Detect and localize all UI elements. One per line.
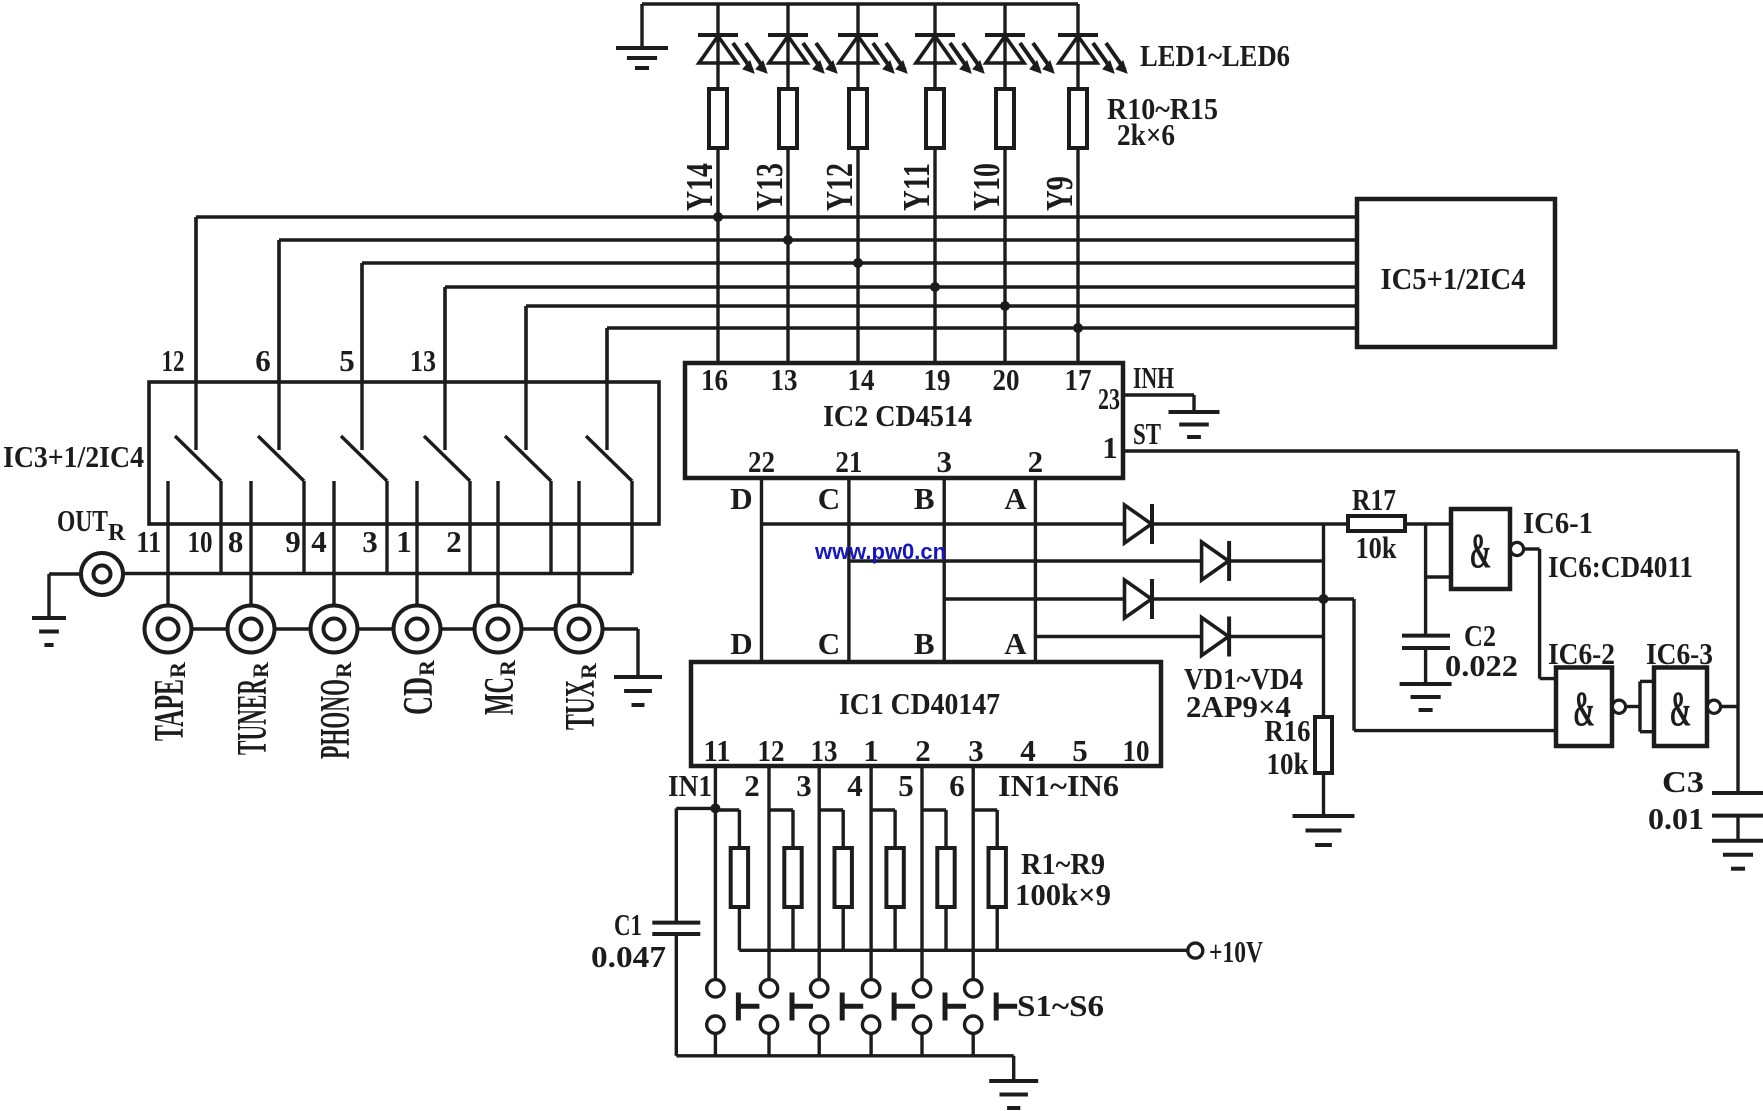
wire switch out K1 [219, 481, 222, 574]
svg-text:3: 3 [796, 768, 812, 803]
ground TUX [614, 677, 662, 705]
svg-text:R: R [495, 659, 520, 676]
svg-text:IC6-3: IC6-3 [1646, 636, 1713, 671]
label 5 [898, 768, 914, 803]
wire control S4 [443, 287, 446, 450]
wire C2 branch [1424, 524, 1427, 636]
wire control S1 [194, 217, 197, 450]
wire IN3 column [818, 766, 821, 980]
svg-text:&: & [1670, 680, 1692, 736]
svg-text:S1~S6: S1~S6 [1017, 988, 1104, 1023]
pin 2 IC2 [1028, 444, 1044, 479]
node A lower [1004, 626, 1027, 661]
label MC_R [477, 659, 523, 715]
svg-text:TUNER: TUNER [230, 679, 276, 755]
wire TUX to ground [603, 629, 639, 677]
svg-text:14: 14 [848, 362, 875, 397]
LED LED2 [768, 4, 837, 89]
wire switch out K6 [630, 481, 633, 574]
switch S3 [811, 980, 864, 1056]
wire top rail [642, 2, 1078, 5]
wire switch out K5 [549, 481, 552, 574]
wire link PHONO-CD [358, 627, 394, 630]
svg-text:4: 4 [1020, 733, 1036, 768]
svg-text:9: 9 [285, 524, 301, 559]
wire switch in K6 [577, 481, 580, 606]
pin 10 IC1 [1123, 733, 1150, 768]
wire INH pin23 [1124, 395, 1194, 412]
wire control S5 [524, 306, 527, 450]
wire control S3 [360, 263, 363, 450]
label TUNER_R [230, 661, 276, 755]
svg-text:1: 1 [1102, 430, 1118, 465]
label IN1~IN6 [998, 768, 1119, 803]
svg-text:IC6:CD4011: IC6:CD4011 [1548, 549, 1693, 584]
pin 20 IC2 [993, 362, 1020, 397]
wire switch out K2 [302, 481, 305, 574]
svg-text:IC6-1: IC6-1 [1523, 505, 1593, 540]
node Y12 [819, 163, 861, 211]
wire R16 to ground [1322, 773, 1325, 816]
wire bus Y14 to IC5 [196, 215, 1357, 218]
pin 8 IC3 [228, 524, 244, 559]
pin 23 IC2 [1098, 381, 1120, 416]
svg-text:C: C [818, 481, 840, 516]
connector TUX_R [556, 606, 603, 653]
node Y9 [1039, 176, 1081, 211]
svg-text:0.047: 0.047 [591, 939, 666, 974]
wire D column [760, 478, 763, 662]
svg-text:&: & [1573, 680, 1595, 736]
svg-text:INH: INH [1133, 360, 1174, 395]
svg-text:23: 23 [1098, 381, 1120, 416]
switch S2 [760, 980, 813, 1056]
wire Y9 column [1076, 148, 1079, 363]
switch blade K2 [258, 436, 304, 481]
wire ST pin1 [1124, 449, 1738, 452]
svg-text:13: 13 [771, 362, 798, 397]
LED LED1 [698, 4, 767, 89]
label TUX_R [558, 662, 604, 730]
resistor R14 [996, 89, 1014, 148]
wire bottom bus [676, 1054, 1013, 1057]
svg-text:MC: MC [477, 677, 523, 715]
junction Y12 [853, 258, 863, 268]
wire control S6 [605, 328, 608, 450]
pin 13 IC1 [811, 733, 838, 768]
pin 3 IC1 [968, 733, 984, 768]
wire row D [762, 522, 1349, 525]
switch blade K4 [424, 436, 470, 481]
wire IN1 column [714, 766, 717, 980]
wire row B [944, 597, 1323, 600]
wire switch in K1 [166, 481, 169, 606]
wire row C [849, 559, 1324, 562]
IC U1 CD40147 box [691, 662, 1161, 766]
wire bus Y11 to IC5 [445, 285, 1357, 288]
svg-text:B: B [914, 626, 935, 661]
svg-text:IN1: IN1 [668, 768, 712, 803]
svg-text:12: 12 [758, 733, 785, 768]
pin 12 IC1 [758, 733, 785, 768]
svg-text:0.01: 0.01 [1648, 801, 1704, 836]
svg-text:Y12: Y12 [819, 163, 861, 211]
pin 11 IC3 [136, 524, 161, 559]
LED LED6 [1058, 4, 1127, 89]
ground OUT_R [32, 618, 66, 645]
op-amp gate IC6-1 [1451, 509, 1524, 589]
svg-text:CD: CD [396, 677, 442, 715]
wire OUT bus [123, 572, 632, 575]
pin 5 IC1 [1072, 733, 1088, 768]
pin 19 IC2 [924, 362, 951, 397]
pin 10 IC3 [188, 524, 213, 559]
resistor R17 [1348, 516, 1405, 531]
LED LED4 [915, 4, 984, 89]
svg-text:Y14: Y14 [679, 163, 721, 211]
svg-text:11: 11 [136, 524, 161, 559]
svg-text:IN1~IN6: IN1~IN6 [998, 768, 1119, 803]
junction Y9 [1073, 323, 1083, 333]
wire link MC-TUX [522, 627, 556, 630]
svg-text:3: 3 [362, 524, 378, 559]
svg-text:Y13: Y13 [749, 163, 791, 211]
op-amp gate IC6-2 [1556, 668, 1626, 747]
switch S1 [707, 980, 760, 1056]
wire control S2 [277, 240, 280, 450]
wire Y10 column [1003, 148, 1006, 363]
wire R17 to gate [1405, 522, 1451, 525]
connector MC_R [475, 606, 522, 653]
svg-text:IC6-2: IC6-2 [1548, 636, 1615, 671]
wire bus stub Y13 down [277, 240, 280, 382]
wire B column [943, 478, 946, 662]
svg-text:R1~R9: R1~R9 [1021, 846, 1105, 881]
switch blade K6 [586, 436, 632, 481]
label TAPE_R [147, 661, 193, 741]
wire +10V bus [739, 949, 1187, 952]
svg-text:&: & [1470, 522, 1492, 578]
connector TUNER_R [228, 606, 275, 653]
label R1~R9 [1015, 846, 1111, 912]
svg-text:D: D [730, 481, 752, 516]
wire bus stub Y14 down [194, 217, 197, 382]
pin 17 IC2 [1065, 362, 1092, 397]
diode VD4 [1202, 617, 1230, 657]
svg-text:ST: ST [1133, 416, 1161, 451]
resistor R6 [973, 810, 1006, 950]
ground INH [1169, 412, 1220, 437]
svg-text:C: C [818, 626, 840, 661]
svg-text:11: 11 [704, 733, 731, 768]
svg-text:R16: R16 [1265, 713, 1311, 748]
junction IN1 [710, 803, 720, 813]
label C2 [1445, 618, 1518, 683]
diode VD2 [1202, 541, 1230, 581]
ground C3 [1712, 841, 1763, 869]
switch blade K3 [341, 436, 387, 481]
svg-text:20: 20 [993, 362, 1020, 397]
label R17 [1352, 482, 1397, 565]
svg-text:16: 16 [701, 362, 728, 397]
pin 13 IC3 [410, 343, 436, 378]
label 4 [847, 768, 863, 803]
junction Y13 [783, 235, 793, 245]
resistor R4 [871, 810, 904, 950]
resistor R10 [709, 89, 727, 148]
svg-text:TAPE: TAPE [147, 679, 193, 741]
switch blade K1 [175, 436, 221, 481]
svg-text:12: 12 [162, 343, 185, 378]
wire switch in K2 [249, 481, 252, 606]
svg-text:IC1 CD40147: IC1 CD40147 [839, 686, 1000, 721]
svg-text:B: B [914, 481, 935, 516]
svg-text:4: 4 [311, 524, 327, 559]
wire link CD-MC [441, 627, 475, 630]
wire Y13 column [786, 148, 789, 363]
connector CD_R [394, 606, 441, 653]
IC U3 analog switch box [149, 382, 659, 524]
svg-text:D: D [730, 626, 752, 661]
svg-text:A: A [1004, 626, 1027, 661]
svg-text:0.022: 0.022 [1445, 648, 1518, 683]
svg-text:3: 3 [968, 733, 984, 768]
node Y13 [749, 163, 791, 211]
svg-text:IC2 CD4514: IC2 CD4514 [823, 398, 972, 433]
pin 14 IC2 [848, 362, 875, 397]
node D lower [730, 626, 752, 661]
svg-text:5: 5 [1072, 733, 1088, 768]
wire gate input2 [1426, 575, 1451, 578]
pin 6 IC3 [255, 343, 271, 378]
node B upper [914, 481, 935, 516]
connector PHONO_R [311, 606, 358, 653]
switch S4 [862, 980, 915, 1056]
resistor R1 [715, 810, 748, 950]
svg-text:1: 1 [863, 733, 879, 768]
node Y10 [966, 163, 1008, 211]
pin 13 IC2 [771, 362, 798, 397]
resistor R5 [922, 810, 955, 950]
resistor R2 [769, 810, 802, 950]
pin 9 IC3 [285, 524, 301, 559]
node Y11 [896, 163, 938, 211]
svg-text:R: R [165, 661, 190, 678]
node A upper [1004, 481, 1027, 516]
pin 5 IC3 [339, 343, 355, 378]
svg-text:22: 22 [748, 444, 775, 479]
wire link TAPE-TUNER [192, 627, 228, 630]
wire OUT_R left [49, 574, 81, 618]
svg-text:R17: R17 [1352, 482, 1396, 517]
pin 1 IC1 [863, 733, 879, 768]
switch S6 [965, 980, 1018, 1056]
connector OUT_R [81, 553, 123, 595]
pin 2 IC3 [446, 524, 462, 559]
LED LED5 [985, 4, 1054, 89]
diode VD3 [1125, 579, 1153, 619]
svg-text:IC3+1/2IC4: IC3+1/2IC4 [3, 439, 144, 474]
label R16 [1265, 713, 1311, 781]
diode VD1 [1125, 504, 1153, 544]
svg-text:6: 6 [255, 343, 271, 378]
wire Y14 column [716, 148, 719, 363]
label 3 [796, 768, 812, 803]
svg-text:21: 21 [835, 444, 862, 479]
node C lower [818, 626, 840, 661]
label S1~S6 [1017, 988, 1104, 1023]
pin 3 IC3 [362, 524, 378, 559]
label IC2 CD4514 [823, 398, 972, 433]
resistor R3 [819, 810, 852, 950]
wire switch in K4 [415, 481, 418, 606]
ground R16 [1293, 816, 1355, 845]
ground C2 [1400, 684, 1452, 710]
label C3 [1648, 764, 1704, 836]
svg-text:19: 19 [924, 362, 951, 397]
label IC6-3 [1646, 636, 1713, 671]
wire IC6-2 out [1626, 705, 1640, 708]
label R10~R15 value [1107, 91, 1218, 152]
svg-text:10k: 10k [1267, 746, 1310, 781]
svg-text:8: 8 [228, 524, 244, 559]
svg-text:R: R [576, 662, 601, 679]
svg-text:2: 2 [1028, 444, 1044, 479]
pin 1 IC2 [1102, 430, 1118, 465]
wire right edge down [1736, 451, 1739, 793]
wire C column [847, 478, 850, 662]
wire C1 branch [676, 808, 715, 922]
svg-text:6: 6 [949, 768, 965, 803]
ground bottom [989, 1081, 1038, 1108]
svg-text:13: 13 [410, 343, 436, 378]
svg-text:10: 10 [188, 524, 213, 559]
op-amp gate IC6-3 [1654, 668, 1721, 747]
svg-text:100k×9: 100k×9 [1015, 877, 1111, 912]
wire switch in K5 [496, 481, 499, 606]
wire bus Y12 to IC5 [362, 261, 1357, 264]
svg-text:5: 5 [898, 768, 914, 803]
svg-text:R: R [248, 661, 273, 678]
label IC6-2 [1548, 636, 1615, 671]
wire IN5 column [920, 766, 923, 980]
resistor R13 [926, 89, 944, 148]
node Y14 [679, 163, 721, 211]
junction Y14 [713, 212, 723, 222]
label OUT R [57, 503, 126, 546]
wire A column [1034, 478, 1037, 662]
wire ground stub bottom [1012, 1056, 1015, 1081]
svg-text:+10V: +10V [1209, 934, 1263, 969]
label IC1 CD40147 [839, 686, 1000, 721]
wire IC6-2 input2 [1324, 599, 1557, 731]
resistor R16 [1315, 717, 1332, 773]
svg-text:IC5+1/2IC4: IC5+1/2IC4 [1381, 261, 1526, 296]
wire IC6-3 out [1721, 705, 1738, 708]
junction Y11 [930, 282, 940, 292]
wire bus Y10 to IC5 [526, 304, 1357, 307]
IC U-IC5 box [1357, 199, 1555, 347]
label IN1 [668, 768, 712, 803]
resistor R12 [849, 89, 867, 148]
svg-text:R: R [108, 520, 126, 546]
wire IC6-3 input bracket [1640, 681, 1654, 731]
LED LED3 [838, 4, 907, 89]
wire bus Y9 to IC5 [607, 326, 1357, 329]
pin 4 IC3 [311, 524, 327, 559]
pin 3 IC2 [936, 444, 952, 479]
wire Y12 column [856, 148, 859, 363]
wire IN6 column [972, 766, 975, 980]
wire link TUNER-PHONO [275, 627, 311, 630]
switch blade K5 [505, 436, 551, 481]
pin 2 IC1 [915, 733, 931, 768]
capacitor C3 [1712, 793, 1763, 841]
wire IC6-1 out [1524, 549, 1556, 679]
label ST [1133, 416, 1161, 451]
svg-text:4: 4 [847, 768, 863, 803]
svg-text:LED1~LED6: LED1~LED6 [1140, 38, 1290, 73]
svg-text:13: 13 [811, 733, 838, 768]
pin 16 IC2 [701, 362, 728, 397]
node C upper [818, 481, 840, 516]
switch S5 [913, 980, 966, 1056]
svg-text:5: 5 [339, 343, 355, 378]
svg-text:17: 17 [1065, 362, 1092, 397]
svg-text:3: 3 [936, 444, 952, 479]
svg-text:2: 2 [915, 733, 931, 768]
svg-text:2k×6: 2k×6 [1117, 117, 1175, 152]
svg-text:R: R [331, 661, 356, 678]
pin 11 IC1 [704, 733, 731, 768]
label CD_R [396, 659, 442, 715]
svg-text:Y10: Y10 [966, 163, 1008, 211]
junction diode common [1319, 594, 1329, 604]
wire bus stub Y11 down [443, 287, 446, 382]
pin 12 IC3 [162, 343, 185, 378]
wire bus Y13 to IC5 [279, 238, 1357, 241]
label LED1~LED6 [1140, 38, 1290, 73]
wire Y11 column [933, 148, 936, 363]
label 6 [949, 768, 965, 803]
wire bus stub Y9 down [605, 328, 608, 382]
wire switch out K3 [385, 481, 388, 574]
label IC3+1/2IC4 [3, 439, 144, 474]
watermark www.pw0.cn [814, 539, 946, 564]
connector TAPE_R [145, 606, 192, 653]
svg-text:10: 10 [1123, 733, 1150, 768]
label PHONO_R [313, 661, 359, 759]
label VD1~VD4 [1184, 661, 1303, 724]
wire IN4 column [869, 766, 872, 980]
resistor R15 [1069, 89, 1087, 148]
svg-text:2: 2 [446, 524, 462, 559]
wire diode common [1322, 524, 1325, 717]
node B lower [914, 626, 935, 661]
svg-text:PHONO: PHONO [313, 679, 359, 759]
resistor R11 [779, 89, 797, 148]
ground top-left [616, 4, 668, 68]
svg-text:1: 1 [396, 524, 412, 559]
node D upper [730, 481, 752, 516]
pin 1 IC3 [396, 524, 412, 559]
svg-text:C1: C1 [614, 907, 642, 942]
wire switch in K3 [332, 481, 335, 606]
label 2 [744, 768, 760, 803]
svg-text:A: A [1004, 481, 1027, 516]
wire IN2 column [767, 766, 770, 980]
wire bus stub Y10 down [524, 306, 527, 382]
